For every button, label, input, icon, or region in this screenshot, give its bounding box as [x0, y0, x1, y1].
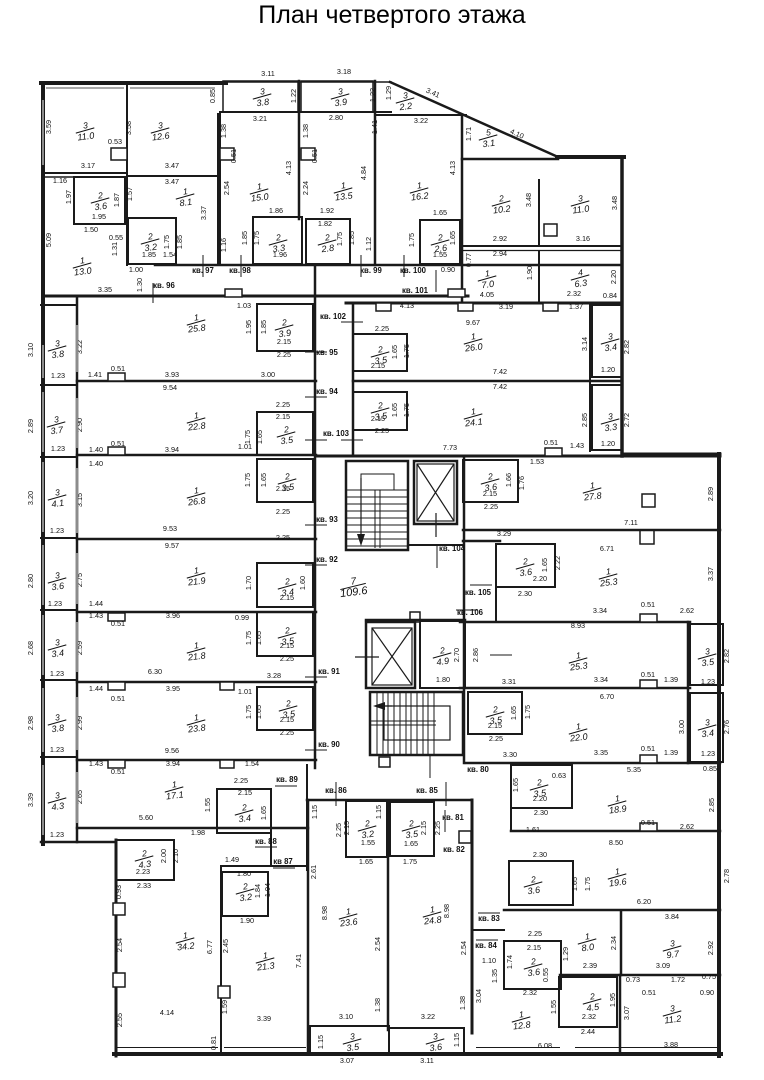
svg-text:кв. 81: кв. 81 [442, 813, 464, 822]
room label 2/3.4 [233, 801, 254, 824]
room label 2/3.5 [277, 697, 298, 720]
diagonal exterior wall [390, 82, 558, 157]
svg-text:3.14: 3.14 [580, 337, 589, 351]
svg-text:3.6: 3.6 [51, 581, 66, 593]
svg-text:1.44: 1.44 [89, 684, 103, 693]
svg-text:1.84: 1.84 [253, 884, 262, 898]
svg-text:2.15: 2.15 [488, 721, 502, 730]
svg-text:1.75: 1.75 [244, 631, 253, 645]
svg-text:3.29: 3.29 [497, 529, 511, 538]
svg-text:2.25: 2.25 [280, 728, 294, 737]
room label 2/3.5 [276, 470, 297, 493]
svg-text:1.01: 1.01 [238, 687, 252, 696]
room 3.6 box [74, 177, 125, 224]
svg-text:3.17: 3.17 [81, 161, 95, 170]
svg-text:1.65: 1.65 [570, 877, 579, 891]
svg-text:2.45: 2.45 [221, 939, 230, 953]
svg-text:7.11: 7.11 [624, 518, 638, 527]
window cores on balcony divider wall [76, 325, 78, 372]
svg-text:кв. 96: кв. 96 [153, 281, 175, 290]
room label 2/3.2 [234, 880, 255, 903]
balcony divider [41, 537, 77, 539]
svg-text:кв. 95: кв. 95 [316, 348, 338, 357]
svg-text:2.68: 2.68 [26, 641, 35, 655]
svg-text:0.51: 0.51 [111, 694, 125, 703]
balcony divider [41, 456, 77, 458]
elevator 2 [355, 622, 415, 688]
window sill lines below top wall [46, 87, 124, 89]
svg-text:2.30: 2.30 [533, 850, 547, 859]
svg-text:1.75: 1.75 [243, 430, 252, 444]
door ticks [305, 351, 327, 353]
room label 3/3.4 [696, 716, 717, 739]
svg-text:3.84: 3.84 [665, 912, 679, 921]
wall below bath kv104 [463, 540, 500, 543]
svg-text:3.07: 3.07 [622, 1006, 631, 1020]
room label 1/23.6 [337, 905, 359, 928]
svg-text:6.70: 6.70 [600, 692, 614, 701]
room 3.4 right box [592, 305, 622, 377]
svg-text:2.80: 2.80 [26, 574, 35, 588]
svg-text:3.00: 3.00 [261, 370, 275, 379]
svg-text:3.11: 3.11 [420, 1056, 434, 1065]
svg-text:3.31: 3.31 [502, 677, 516, 686]
svg-text:1.38: 1.38 [373, 998, 382, 1012]
svg-text:11.0: 11.0 [77, 130, 95, 142]
wall between rooms 8.0/9.7 [620, 912, 623, 975]
svg-text:3.07: 3.07 [340, 1056, 354, 1065]
svg-text:1.23: 1.23 [48, 599, 62, 608]
right exterior wall upper [620, 157, 624, 456]
svg-text:1.16: 1.16 [219, 238, 228, 252]
svg-text:3.58: 3.58 [124, 121, 133, 135]
svg-text:13.0: 13.0 [73, 265, 92, 277]
wall between balconies and rooms [76, 297, 79, 842]
svg-text:2.25: 2.25 [277, 350, 291, 359]
svg-text:2.54: 2.54 [115, 938, 124, 952]
room label 2/3.2 [356, 817, 377, 840]
svg-text:кв. 86: кв. 86 [325, 786, 347, 795]
svg-text:4.9: 4.9 [436, 656, 450, 667]
svg-text:2.76: 2.76 [722, 720, 731, 734]
svg-text:1.54: 1.54 [163, 250, 177, 259]
svg-text:1.75: 1.75 [162, 235, 171, 249]
svg-text:0.84: 0.84 [603, 291, 617, 300]
balcony divider [41, 679, 77, 681]
room label 3/3.4 [599, 330, 620, 353]
room label 2/3.5 [369, 399, 390, 422]
room 3.3 box [253, 217, 302, 264]
svg-text:3.47: 3.47 [165, 177, 179, 186]
bottom exterior wall [114, 1052, 721, 1056]
svg-text:2.20: 2.20 [533, 794, 547, 803]
svg-text:1.75: 1.75 [335, 232, 344, 246]
room label 3/12.6 [149, 119, 171, 142]
room 4.3 box [116, 840, 174, 880]
svg-text:3.18: 3.18 [337, 67, 351, 76]
short wall 1.16 [43, 176, 75, 178]
wall between apts 13.5/16.2 [374, 81, 377, 265]
wall between 25.3 rooms [460, 621, 690, 624]
svg-text:1.23: 1.23 [50, 669, 64, 678]
svg-text:1.66: 1.66 [504, 473, 513, 487]
svg-text:1.92: 1.92 [320, 206, 334, 215]
room label 3/3.4 [46, 636, 67, 659]
room label 2/3.6 [522, 873, 543, 896]
svg-text:16.2: 16.2 [410, 190, 429, 202]
svg-text:1.35: 1.35 [490, 969, 499, 983]
svg-text:3.9: 3.9 [334, 97, 348, 108]
svg-text:1.60: 1.60 [298, 576, 307, 590]
svg-text:2.15: 2.15 [371, 414, 385, 423]
svg-text:3.35: 3.35 [594, 748, 608, 757]
svg-text:3.7: 3.7 [50, 425, 65, 437]
svg-text:2.32: 2.32 [582, 1012, 596, 1021]
top wall of room 12.8 [472, 929, 504, 931]
room label 3/3.8 [46, 337, 67, 360]
svg-text:1.23: 1.23 [50, 745, 64, 754]
room label 1/25.8 [185, 311, 207, 334]
svg-text:3.21: 3.21 [253, 114, 267, 123]
svg-text:2.10: 2.10 [171, 849, 180, 863]
elevator lobby south wall [408, 544, 463, 546]
balcony divider [41, 756, 77, 758]
west wall of room 25.3 upper [495, 545, 497, 622]
svg-text:1.75: 1.75 [402, 344, 411, 358]
room 4.9 box [420, 621, 465, 688]
svg-text:1.65: 1.65 [390, 403, 399, 417]
svg-text:2.25: 2.25 [484, 502, 498, 511]
svg-text:0.51: 0.51 [111, 767, 125, 776]
wall row 26.8/21.9 [77, 538, 316, 541]
svg-text:1.85: 1.85 [240, 231, 249, 245]
svg-text:3.8: 3.8 [256, 97, 270, 108]
svg-text:кв. 93: кв. 93 [316, 515, 338, 524]
wall below room 17.1 [77, 827, 308, 830]
svg-text:3.94: 3.94 [165, 445, 179, 454]
svg-text:кв. 80: кв. 80 [467, 765, 489, 774]
svg-text:2.15: 2.15 [280, 641, 294, 650]
svg-text:кв. 105: кв. 105 [465, 588, 492, 597]
room label 2/3.5 [528, 776, 549, 799]
room label 1/8.0 [576, 930, 597, 953]
svg-text:1.43: 1.43 [89, 611, 103, 620]
svg-text:кв. 92: кв. 92 [316, 555, 338, 564]
room label 1/21.8 [185, 639, 207, 662]
room label 1/17.1 [163, 778, 184, 801]
svg-text:1.98: 1.98 [191, 828, 205, 837]
closet top [544, 224, 557, 236]
svg-text:1.87: 1.87 [112, 193, 121, 207]
svg-text:1.65: 1.65 [511, 778, 520, 792]
svg-text:1.75: 1.75 [252, 231, 261, 245]
svg-text:8.98: 8.98 [442, 904, 451, 918]
svg-text:4.13: 4.13 [448, 161, 457, 175]
left wall of apartment 15.0 [219, 112, 221, 265]
svg-text:3.93: 3.93 [165, 370, 179, 379]
room label 1/27.8 [581, 479, 603, 502]
svg-text:9.54: 9.54 [163, 383, 177, 392]
svg-text:2.92: 2.92 [706, 941, 715, 955]
wall below terrace 3.1 [462, 158, 558, 161]
svg-text:2.22: 2.22 [553, 556, 562, 570]
svg-text:1.41: 1.41 [88, 370, 102, 379]
room label 1/25.3 [567, 649, 589, 672]
room label 1/15.0 [248, 180, 269, 203]
svg-text:1.80: 1.80 [237, 869, 251, 878]
svg-text:2.25: 2.25 [276, 400, 290, 409]
svg-text:1.43: 1.43 [89, 759, 103, 768]
svg-text:1.65: 1.65 [259, 473, 268, 487]
svg-text:3.96: 3.96 [166, 611, 180, 620]
svg-text:2.25: 2.25 [528, 929, 542, 938]
closet 27.8 [642, 494, 655, 507]
wall between apts 15.0/13.5 [298, 81, 301, 219]
room 2.8 box [306, 219, 350, 264]
svg-text:2.82: 2.82 [722, 649, 731, 663]
room label 2/3.5 [400, 817, 421, 840]
svg-text:0.51: 0.51 [641, 818, 655, 827]
svg-text:1.65: 1.65 [359, 857, 373, 866]
right exterior wall lower [717, 454, 721, 1056]
top exterior wall [41, 81, 226, 85]
wall between 26.0/24.1 [353, 380, 622, 383]
svg-text:2.25: 2.25 [276, 533, 290, 542]
svg-text:3.39: 3.39 [257, 1014, 271, 1023]
svg-text:1.95: 1.95 [608, 993, 617, 1007]
svg-text:1.37: 1.37 [569, 302, 583, 311]
svg-text:0.51: 0.51 [111, 619, 125, 628]
svg-text:1.75: 1.75 [407, 233, 416, 247]
svg-text:кв. 102: кв. 102 [320, 312, 347, 321]
svg-text:2.54: 2.54 [222, 181, 231, 195]
svg-text:2.15: 2.15 [483, 489, 497, 498]
svg-text:6.3: 6.3 [574, 278, 588, 289]
west wall of room 11.2 [619, 975, 622, 1051]
bath 3.2 23.6 box [346, 801, 387, 857]
svg-text:1.49: 1.49 [225, 855, 239, 864]
svg-text:2.61: 2.61 [309, 865, 318, 879]
room label 3/3.3 [599, 410, 620, 433]
wall row 23.8/17.1 [77, 759, 316, 762]
svg-text:3.5: 3.5 [280, 435, 295, 447]
room label 2/3.6 [479, 470, 500, 493]
room label 2/2.8 [316, 231, 337, 254]
wall above elevator 2 [366, 619, 465, 622]
svg-text:1.80: 1.80 [436, 675, 450, 684]
svg-text:2.00: 2.00 [159, 849, 168, 863]
wall below room 18.9 [511, 830, 720, 833]
svg-text:1.65: 1.65 [255, 430, 264, 444]
wall below room 12.6 [127, 175, 218, 177]
corridor stub wall [270, 833, 272, 866]
svg-text:2.25: 2.25 [433, 821, 442, 835]
wall below 22.0 row [466, 762, 720, 765]
room label 2/3.2 [139, 230, 160, 253]
svg-text:1.39: 1.39 [664, 675, 678, 684]
svg-text:2.20: 2.20 [533, 574, 547, 583]
wall below top balconies [220, 111, 391, 113]
svg-text:кв. 100: кв. 100 [400, 266, 427, 275]
svg-text:1.75: 1.75 [244, 705, 253, 719]
svg-text:кв. 98: кв. 98 [229, 266, 251, 275]
svg-text:1.61: 1.61 [526, 825, 540, 834]
svg-text:6.08: 6.08 [538, 1041, 552, 1050]
svg-text:2.32: 2.32 [523, 988, 537, 997]
svg-text:0.55: 0.55 [109, 233, 123, 242]
svg-text:1.85: 1.85 [142, 250, 156, 259]
svg-text:0.51: 0.51 [229, 149, 238, 163]
svg-text:3.4: 3.4 [604, 342, 618, 353]
svg-text:5.09: 5.09 [44, 233, 53, 247]
room label 3/3.5 [696, 645, 717, 668]
left exterior wall lower block [115, 840, 118, 1056]
balcony 3.9 top [301, 81, 373, 112]
room label 5/3.1 [477, 126, 498, 149]
svg-text:1.96: 1.96 [273, 250, 287, 259]
svg-text:2.39: 2.39 [583, 961, 597, 970]
svg-text:7.42: 7.42 [493, 367, 507, 376]
room label 3/3.6 [424, 1030, 445, 1053]
svg-text:1.39: 1.39 [664, 748, 678, 757]
room 3.3 right box [592, 385, 622, 450]
wall between 21.3/23.6 [307, 800, 310, 1054]
wall below rooms 8.0/9.7 [560, 974, 720, 977]
room label 3/11.0 [74, 119, 95, 142]
svg-text:3.00: 3.00 [677, 720, 686, 734]
room label 1/22.0 [567, 720, 589, 743]
svg-text:2.59: 2.59 [75, 641, 84, 655]
wall below rooms 10.2/11.0 [462, 245, 622, 247]
room label 3/9.7 [661, 937, 682, 960]
svg-text:3.34: 3.34 [593, 606, 607, 615]
svg-text:3.15: 3.15 [75, 493, 84, 507]
svg-text:3.22: 3.22 [75, 340, 84, 354]
svg-text:1.44: 1.44 [89, 599, 103, 608]
svg-text:0.53: 0.53 [108, 137, 122, 146]
room label 4/6.3 [569, 266, 590, 289]
room label 2/3.4 [276, 575, 297, 598]
room label 3/11.2 [661, 1002, 682, 1025]
bath 3.5 kv80 box [468, 692, 522, 734]
svg-text:5.35: 5.35 [627, 765, 641, 774]
svg-text:3.48: 3.48 [610, 196, 619, 210]
svg-text:2.44: 2.44 [581, 1027, 595, 1036]
room label 1/18.9 [606, 792, 627, 815]
room label 2/3.5 [276, 624, 297, 647]
svg-text:2.55: 2.55 [115, 1013, 124, 1027]
room label 3/4.1 [46, 486, 67, 509]
svg-text:3.28: 3.28 [267, 671, 281, 680]
svg-text:2.89: 2.89 [26, 419, 35, 433]
east wall at balconies [687, 622, 690, 763]
svg-text:0.55: 0.55 [541, 968, 550, 982]
svg-text:2.24: 2.24 [301, 181, 310, 195]
svg-text:0.51: 0.51 [310, 149, 319, 163]
svg-text:3.95: 3.95 [166, 684, 180, 693]
svg-text:0.51: 0.51 [642, 988, 656, 997]
column below stairs [379, 757, 390, 767]
svg-text:1.30: 1.30 [135, 278, 144, 292]
svg-text:2.72: 2.72 [622, 413, 631, 427]
svg-text:1.55: 1.55 [549, 1000, 558, 1014]
svg-text:1.75: 1.75 [402, 403, 411, 417]
svg-text:3.8: 3.8 [51, 723, 65, 734]
svg-text:4.14: 4.14 [160, 1008, 174, 1017]
svg-text:2.62: 2.62 [680, 822, 694, 831]
window notches [108, 373, 125, 381]
bath 3.6 kv105 box [496, 544, 555, 587]
svg-text:2.65: 2.65 [75, 790, 84, 804]
bath 3.2 21.3 box [222, 872, 268, 916]
bath 3.5a box [257, 412, 313, 455]
room label 3/3.9 [329, 85, 350, 108]
svg-text:1.53: 1.53 [530, 457, 544, 466]
svg-text:1.76: 1.76 [517, 476, 526, 490]
svg-text:3.16: 3.16 [576, 234, 590, 243]
svg-text:3.30: 3.30 [503, 750, 517, 759]
svg-text:4.13: 4.13 [400, 301, 414, 310]
svg-text:1.22: 1.22 [289, 89, 298, 103]
svg-text:3.6: 3.6 [527, 967, 542, 979]
svg-text:3.3: 3.3 [604, 422, 618, 433]
shaft wall left of rooms 3.4/3.3 [589, 305, 591, 451]
svg-text:2.85: 2.85 [707, 798, 716, 812]
svg-text:6.77: 6.77 [205, 940, 214, 954]
svg-text:1.75: 1.75 [523, 705, 532, 719]
bath 3.5 24.8 box [390, 802, 434, 856]
svg-text:7.42: 7.42 [493, 382, 507, 391]
svg-text:2.89: 2.89 [706, 487, 715, 501]
wall below room 11.0 [43, 172, 126, 174]
west wall of apt 21.3 [220, 866, 222, 1054]
left connector wall [41, 841, 116, 844]
svg-text:1.31: 1.31 [110, 242, 119, 256]
svg-text:кв 87: кв 87 [273, 857, 293, 866]
svg-text:3.6: 3.6 [94, 201, 109, 213]
svg-text:кв. 99: кв. 99 [360, 266, 382, 275]
svg-text:кв. 103: кв. 103 [323, 429, 350, 438]
svg-text:1.55: 1.55 [361, 838, 375, 847]
elevator 1 [414, 461, 457, 537]
room label 2/3.5 [484, 703, 505, 726]
wall row 25.8/22.8 [77, 380, 316, 383]
svg-text:2.15: 2.15 [280, 593, 294, 602]
svg-text:2.25: 2.25 [375, 324, 389, 333]
svg-text:3.37: 3.37 [706, 567, 715, 581]
svg-text:1.55: 1.55 [203, 798, 212, 812]
bath 3.4b box [217, 789, 271, 833]
svg-text:кв. 82: кв. 82 [443, 845, 465, 854]
svg-text:3.19: 3.19 [499, 302, 513, 311]
left exterior wall [41, 83, 45, 844]
top wall of apt 21.3 [221, 865, 307, 867]
svg-text:0.51: 0.51 [641, 744, 655, 753]
svg-text:3.8: 3.8 [51, 349, 65, 360]
wall below room 19.6 [504, 909, 720, 912]
room label 1/22.8 [185, 409, 207, 432]
balcony 3.6 bottom [389, 1028, 464, 1054]
svg-text:0.93: 0.93 [114, 885, 123, 899]
svg-text:2.15: 2.15 [527, 943, 541, 952]
room label 1/26.8 [185, 484, 207, 507]
wall row 21.8/23.8 [77, 681, 316, 684]
svg-text:2.98: 2.98 [26, 716, 35, 730]
svg-text:2.23: 2.23 [136, 867, 150, 876]
svg-text:1.75: 1.75 [583, 877, 592, 891]
bath 3.5 kv102 box [353, 334, 407, 371]
svg-text:3.34: 3.34 [594, 675, 608, 684]
